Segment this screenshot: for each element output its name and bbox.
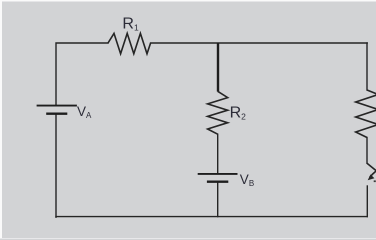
battery VB short plate [207,180,228,182]
battery VB long plate [198,173,238,175]
wire VB to bottom [217,182,219,217]
switch blade (cut off at right edge) [367,163,376,172]
resistor R3 (right, cut off at edge) [356,90,376,138]
wire left side lower [55,114,57,217]
wire right side upper [366,43,368,90]
wire middle branch thick (node to R2) [217,43,219,92]
resistor R2 [208,91,228,134]
wire middle branch lower (R2 to VB) [217,134,219,173]
cut-off glyph fragment at edge [374,180,376,182]
resistor R1 [108,33,151,53]
battery VA long plate [37,105,77,107]
battery VA short plate [46,112,67,114]
switch motion arrow (cut off at right edge) [370,170,376,177]
wire top-left segment [56,43,108,105]
wire right side lower [366,186,368,217]
wire top-middle segment [151,42,368,44]
wire bottom [56,216,367,218]
wire right resistor to switch [366,138,368,164]
